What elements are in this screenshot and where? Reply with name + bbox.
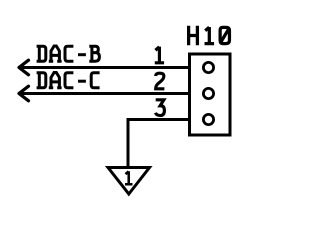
wire pin 3 horizontal segment (128, 118, 190, 121)
wire net DAC-C (pin 2 wire) (19, 92, 190, 95)
pin 3 circle (203, 114, 213, 124)
pin 2 circle (203, 88, 213, 98)
pin number 1 (155, 47, 164, 63)
arrow head on DAC-C wire (19, 86, 29, 101)
pin 1 circle (203, 62, 213, 72)
wire pin 3 vertical segment to ground (127, 118, 130, 169)
wire net DAC-B (pin 1 wire) (19, 66, 190, 69)
reference designator H10 (189, 26, 230, 45)
arrow head on DAC-B wire (19, 60, 29, 75)
ground symbol triangle (108, 168, 150, 195)
label DAC-C (37, 73, 100, 89)
ground symbol label 1 (125, 171, 132, 184)
label DAC-B (37, 46, 100, 62)
connector H10 body (190, 54, 231, 135)
pin number 2 (156, 73, 165, 89)
pin number 3 (155, 100, 164, 116)
